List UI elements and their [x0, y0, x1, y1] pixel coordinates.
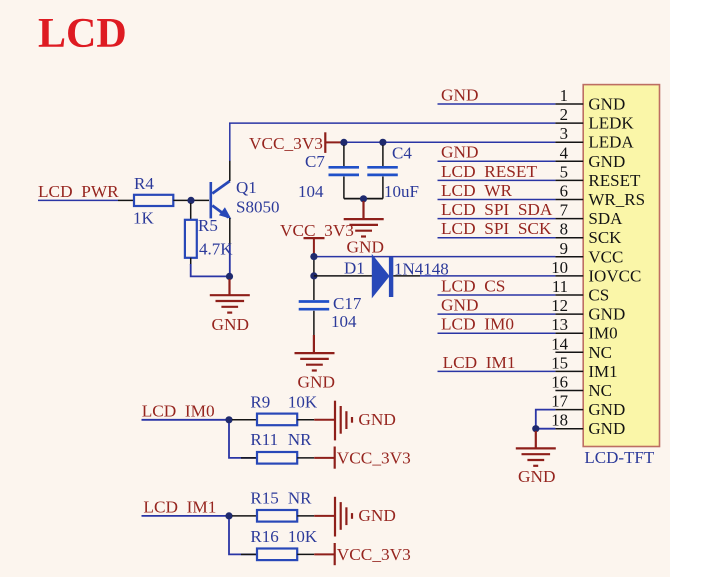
power VCC_3V3 at R11 [335, 447, 411, 469]
pin 18 GND [551, 411, 625, 439]
net label GND pin1 [438, 85, 556, 104]
svg-text:10K: 10K [288, 393, 318, 412]
node IM1 junction [225, 512, 232, 519]
capacitor C4 [367, 144, 419, 202]
node VCC pin9 junction [310, 253, 317, 260]
resistor R16 [250, 527, 318, 560]
resistor R4 [133, 174, 173, 228]
svg-text:VCC_3V3: VCC_3V3 [337, 449, 411, 468]
svg-text:GND: GND [518, 467, 555, 486]
svg-text:C7: C7 [305, 152, 325, 171]
wire R11 to VCC [297, 457, 334, 459]
wire collector to pin2 LEDK [229, 122, 555, 124]
pin 14 NC [551, 334, 612, 362]
svg-text:C17: C17 [333, 294, 362, 313]
net label LCD_IM0 [142, 401, 215, 420]
pin 11 CS [552, 277, 609, 305]
power VCC_3V3 (top) [249, 132, 344, 153]
svg-text:VCC_3V3: VCC_3V3 [337, 545, 411, 564]
svg-text:NC: NC [588, 343, 612, 362]
resistor R11 [250, 430, 312, 464]
pin 8 SCK [555, 220, 622, 248]
svg-text:11: 11 [552, 277, 568, 296]
pin 12 GND [551, 296, 625, 324]
wire IM1 node to R15 [232, 515, 257, 517]
wire pin9 VCC net [314, 256, 556, 258]
power VCC_3V3 at R16 [335, 543, 411, 565]
wire R5 to emitter node [191, 264, 230, 276]
svg-text:GND: GND [588, 152, 625, 171]
svg-text:NR: NR [288, 430, 312, 449]
svg-text:17: 17 [551, 392, 568, 411]
svg-text:6: 6 [560, 182, 568, 201]
svg-text:LCD WR: LCD WR [441, 181, 513, 200]
svg-text:RESET: RESET [588, 171, 641, 190]
svg-text:R11: R11 [250, 430, 278, 449]
pin 6 WR_RS [555, 182, 645, 210]
svg-text:LCD IM1: LCD IM1 [143, 497, 216, 516]
resistor R15 [250, 488, 312, 521]
wire LCD_PWR to R4 [38, 199, 134, 201]
svg-text:2: 2 [560, 105, 568, 124]
svg-text:LEDK: LEDK [588, 114, 634, 133]
pin 15 IM1 [551, 353, 617, 381]
svg-text:GND: GND [441, 85, 478, 104]
net label LCD_SPI_SDA pin7 [438, 200, 556, 219]
svg-text:LCD SPI SDA: LCD SPI SDA [441, 200, 553, 219]
svg-text:12: 12 [551, 296, 568, 315]
node pin18 junction [532, 425, 539, 432]
net label LCD_IM1 [143, 497, 216, 516]
power VCC_3V3 (mid) [280, 221, 354, 254]
svg-text:SDA: SDA [588, 209, 623, 228]
node caps bottom junction [360, 195, 367, 202]
svg-text:IM0: IM0 [588, 324, 617, 343]
pin 5 RESET [555, 162, 641, 190]
svg-text:R5: R5 [198, 216, 218, 235]
svg-text:GND: GND [298, 373, 335, 392]
svg-text:R4: R4 [134, 174, 154, 193]
wire pin17 to pin18 corner [536, 410, 556, 429]
pin 9 VCC [555, 239, 623, 266]
pin 3 LEDA [555, 124, 634, 152]
svg-text:LCD IM0: LCD IM0 [142, 401, 215, 420]
svg-text:LCD IM1: LCD IM1 [443, 353, 516, 372]
diode D1 1N4148 [344, 255, 449, 297]
svg-text:CS: CS [588, 286, 609, 305]
svg-text:4.7K: 4.7K [199, 240, 233, 259]
svg-text:LCD SPI SCK: LCD SPI SCK [441, 219, 552, 238]
node emitter junction [226, 273, 233, 280]
svg-text:GND: GND [347, 238, 384, 257]
svg-text:GND: GND [588, 95, 625, 114]
wire IM0 node down to R11 [229, 423, 258, 458]
svg-text:1: 1 [560, 86, 568, 105]
svg-text:SCK: SCK [588, 228, 622, 247]
pin 4 GND [555, 143, 625, 171]
svg-text:LCD RESET: LCD RESET [441, 162, 537, 181]
wire R15 to ground [297, 515, 334, 517]
node base junction [187, 197, 194, 204]
svg-text:GND: GND [441, 296, 478, 315]
ground GND below C7 C4 [344, 201, 384, 257]
wire IM1 node down to R16 [229, 519, 258, 554]
ground GND sideways at R9 [335, 401, 396, 441]
net label GND pin4 [438, 143, 556, 162]
wire anode lead [314, 275, 372, 277]
wire collector up [229, 123, 231, 181]
svg-text:GND: GND [212, 315, 249, 334]
wire R16 to VCC [297, 553, 334, 555]
pin 1 GND [555, 86, 625, 114]
svg-text:D1: D1 [344, 259, 365, 278]
wire VCC stem through nodes to C17 [313, 253, 315, 300]
svg-text:7: 7 [560, 201, 568, 220]
wire IM0 node to R9 [232, 419, 257, 421]
net label GND pin12 [438, 296, 556, 315]
node VCC rail junction 2 [379, 139, 386, 146]
svg-text:VCC: VCC [588, 247, 623, 266]
net label LCD_SPI_SCK pin8 [438, 219, 556, 238]
svg-text:3: 3 [560, 124, 568, 143]
net label LCD_WR pin6 [438, 181, 556, 200]
svg-text:LCD PWR: LCD PWR [38, 182, 119, 201]
svg-text:GND: GND [441, 143, 478, 162]
svg-text:LCD CS: LCD CS [441, 276, 505, 295]
svg-text:14: 14 [551, 334, 568, 353]
svg-text:GND: GND [358, 410, 395, 429]
net label LCD_IM0 pin13 [438, 315, 556, 334]
capacitor C7 [298, 145, 359, 201]
svg-text:10uF: 10uF [384, 182, 419, 201]
svg-text:NR: NR [288, 488, 312, 507]
svg-text:15: 15 [551, 353, 568, 372]
svg-text:1K: 1K [133, 209, 155, 228]
net label LCD_IM1 pin15 [438, 353, 556, 372]
svg-text:4: 4 [560, 143, 569, 162]
pin 10 IOVCC [551, 258, 641, 286]
ground GND below Q1 [210, 279, 250, 334]
ground GND below pin18 [516, 431, 556, 486]
ground GND sideways at R15 [335, 497, 396, 537]
svg-text:IM1: IM1 [588, 362, 617, 381]
svg-text:5: 5 [560, 162, 568, 181]
wire LCD_IM1 [142, 515, 230, 517]
pin 17 GND [551, 392, 625, 420]
net label LCD_PWR [38, 182, 119, 201]
svg-text:104: 104 [298, 182, 324, 201]
svg-text:GND: GND [358, 506, 395, 525]
svg-text:WR_RS: WR_RS [588, 190, 645, 209]
wire R9 to ground [297, 419, 334, 421]
wire cathode lead to pin10 [393, 275, 555, 277]
svg-text:C4: C4 [392, 144, 412, 163]
svg-text:LEDA: LEDA [588, 133, 634, 152]
svg-text:16: 16 [551, 373, 568, 392]
pin 7 SDA [555, 201, 623, 229]
svg-text:R15: R15 [250, 488, 278, 507]
net label LCD_RESET pin5 [438, 162, 556, 181]
net label LCD_CS pin11 [438, 276, 556, 295]
connector LCD-TFT body [583, 85, 659, 467]
svg-text:IOVCC: IOVCC [588, 266, 641, 285]
transistor Q1 [211, 178, 280, 219]
pin 13 IM0 [551, 315, 617, 343]
svg-text:104: 104 [331, 312, 357, 331]
svg-text:13: 13 [551, 315, 568, 334]
node VCC rail junction 1 [340, 139, 347, 146]
svg-text:VCC_3V3: VCC_3V3 [249, 134, 323, 153]
svg-text:18: 18 [551, 411, 568, 430]
ground GND below C17 [295, 335, 335, 392]
svg-text:Q1: Q1 [236, 178, 257, 197]
svg-text:LCD-TFT: LCD-TFT [584, 448, 655, 467]
svg-text:LCD: LCD [38, 11, 127, 57]
svg-text:R9: R9 [250, 393, 270, 412]
resistor R5 [185, 203, 233, 265]
svg-text:GND: GND [588, 400, 625, 419]
svg-text:NC: NC [588, 381, 612, 400]
node anode pin10 junction [310, 272, 317, 279]
node IM0 junction [225, 416, 232, 423]
wire LCD_IM0 [142, 419, 230, 421]
wire emitter down [228, 218, 231, 276]
wire caps bottom rail [344, 198, 383, 200]
svg-text:GND: GND [588, 419, 625, 438]
svg-text:10K: 10K [288, 527, 318, 546]
svg-text:8: 8 [560, 220, 568, 239]
svg-text:LCD IM0: LCD IM0 [441, 315, 514, 334]
svg-text:GND: GND [588, 305, 625, 324]
svg-text:10: 10 [551, 258, 568, 277]
pin 16 NC [551, 373, 612, 401]
capacitor C17 [299, 294, 362, 336]
resistor R9 [250, 393, 318, 426]
svg-text:R16: R16 [250, 527, 278, 546]
svg-text:S8050: S8050 [236, 198, 279, 217]
svg-text:9: 9 [560, 239, 568, 258]
pin 2 LEDK [555, 105, 634, 133]
wire R4 to base node [173, 199, 209, 201]
wire VCC rail to pin3 [344, 141, 556, 143]
